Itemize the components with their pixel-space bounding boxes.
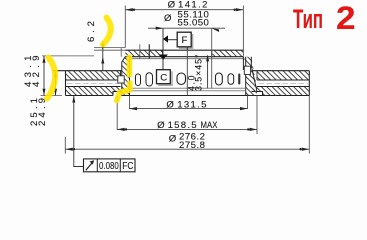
bolt hole centerline tick 2 (dark rib edge): [148, 44, 150, 58]
svg-text:55.050: 55.050: [178, 18, 209, 29]
131.5 arrows: [130, 107, 248, 110]
FCF leader: [74, 96, 84, 167]
43.1 top ext: [42, 55, 94, 57]
55 right arrow: [212, 28, 219, 32]
ring left step hatch: [113, 87, 122, 92]
svg-text:Ø: Ø: [157, 120, 165, 131]
141.2 dim line: [125, 9, 243, 11]
svg-text:C: C: [160, 73, 167, 84]
bolt hole centerline tick 1: [139, 44, 141, 58]
svg-text:F: F: [182, 35, 188, 46]
6.2 upper arrow (down): [101, 44, 104, 50]
cap hatch left segment: [125, 50, 162, 57]
cap outline: [125, 50, 243, 57]
276.2 arrows: [65, 148, 309, 151]
55 dim line: [148, 27, 225, 29]
wall right hatch: [243, 57, 257, 96]
chamfer leader: [207, 56, 209, 89]
FCF box: [84, 159, 136, 172]
F box shadow: [179, 34, 193, 48]
svg-text:2: 2: [336, 0, 356, 36]
chamfer arrow: [206, 55, 209, 62]
6.2 stem: [102, 41, 104, 71]
ring right bottom plate hatch: [263, 87, 310, 96]
mounting face line: [131, 58, 243, 60]
43.1 bottom ext: [41, 95, 63, 97]
slot 2: [146, 73, 153, 86]
158.5 arrow dots: [125, 128, 127, 130]
55 right ext: [211, 28, 213, 88]
141.2 ext lines: [125, 6, 243, 57]
wall right outer line: [251, 57, 257, 92]
top plate inner edge: [120, 71, 122, 80]
43.1 arrows: [43, 56, 46, 96]
svg-text:131.5: 131.5: [177, 99, 206, 110]
svg-text:6.2: 6.2: [86, 21, 97, 42]
158.5 dim line: [117, 128, 257, 130]
cap bore edges: [163, 50, 212, 57]
ring right outline: [252, 71, 310, 96]
25.1 arrows: [54, 71, 57, 96]
yellow bar on hat wall: [127, 57, 133, 75]
yellow crescent at 43.1: [47, 58, 55, 99]
interior gray lines: [130, 88, 246, 91]
F box stem to cap: [186, 47, 188, 50]
C stem: [162, 28, 164, 69]
slot 5: [228, 74, 234, 85]
slot 6 edge-on bar: [238, 74, 240, 85]
wall right inner line: [243, 57, 245, 96]
6.2 lower arrow (up): [101, 57, 104, 64]
ring right step hatch: [253, 87, 263, 92]
ring left vent centerline: [67, 82, 119, 84]
runout symbol: [86, 162, 93, 170]
ring left outline: [66, 71, 122, 96]
6.2 top ext line: [94, 49, 125, 51]
svg-text:275.8: 275.8: [179, 140, 205, 151]
ring right vent centerline: [259, 82, 309, 84]
slot 3: [177, 73, 186, 85]
ring left bottom plate hatch: [66, 87, 114, 96]
yellow step Z mark: [117, 83, 130, 101]
ring right top plate hatch: [257, 71, 309, 80]
cap rim lip line: [94, 48, 125, 57]
F triangle: [163, 35, 168, 42]
276.2 arrow dots: [73, 148, 75, 150]
wall left hatch: [122, 57, 130, 96]
wall left outer line: [122, 57, 126, 96]
svg-text:Ø: Ø: [168, 0, 176, 11]
disc centerline: [186, 47, 188, 96]
wall left notch: [118, 76, 124, 83]
svg-text:3.5×45°: 3.5×45°: [194, 55, 204, 92]
25.1 dim line: [55, 71, 57, 96]
svg-text:Ø: Ø: [164, 13, 172, 24]
141.2 arrows: [125, 8, 243, 11]
svg-text:158.5: 158.5: [168, 120, 197, 131]
svg-text:MAX: MAX: [201, 120, 218, 131]
svg-text:FC: FC: [122, 160, 133, 172]
svg-text:0.080: 0.080: [99, 160, 119, 172]
131.5 dim line: [130, 108, 248, 110]
C box: [157, 70, 171, 84]
158.5 arrows: [117, 128, 257, 131]
141.2 arrow dots: [133, 9, 135, 11]
276.2 ext lines: [65, 96, 309, 154]
svg-text:Ø: Ø: [166, 99, 174, 110]
ring right top plate inner edge: [256, 71, 258, 80]
F box: [177, 32, 191, 47]
cap hatch right segment: [212, 50, 243, 57]
svg-text:Ø: Ø: [169, 134, 177, 145]
interior bottom dark line: [122, 95, 263, 97]
ring left top plate hatch: [66, 71, 121, 80]
55 left arrow: [156, 27, 164, 30]
yellow crescent at 6.2: [103, 18, 111, 45]
C triangle: [159, 55, 168, 60]
wall left inner line: [129, 57, 131, 96]
wall right notch: [244, 66, 250, 74]
slot 1: [136, 74, 141, 86]
131.5 ext lines: [130, 96, 248, 110]
C box shadow: [158, 71, 172, 85]
FCF leader arrow: [72, 96, 75, 103]
svg-text:Тип: Тип: [293, 4, 323, 34]
F leader: [168, 39, 177, 41]
ring top line with left extension: [52, 70, 122, 72]
FCF dividers: [97, 159, 120, 172]
slot 4: [216, 73, 223, 85]
158.5 ext lines: [117, 96, 257, 135]
43.1 dim line: [43, 56, 45, 96]
276.2 dim line: [65, 148, 309, 150]
